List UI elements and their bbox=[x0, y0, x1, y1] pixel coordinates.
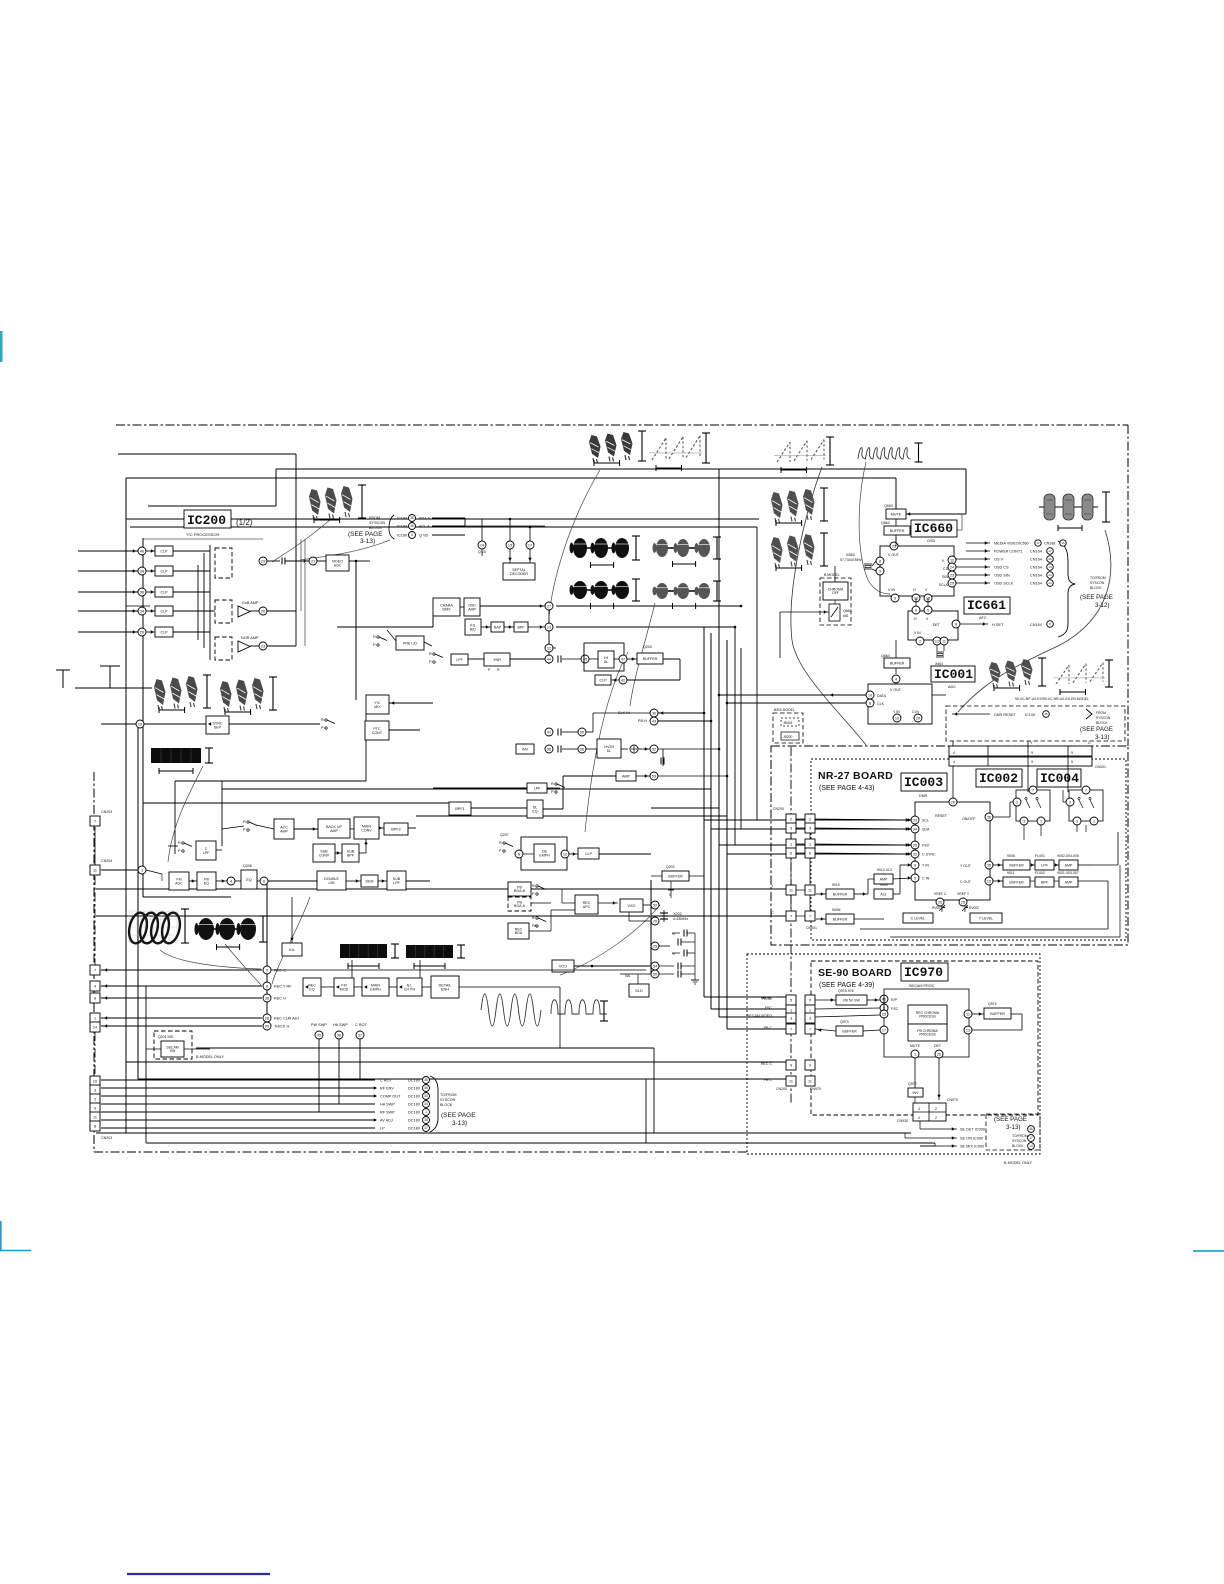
svg-text:3: 3 bbox=[94, 1089, 96, 1093]
svg-text:10: 10 bbox=[868, 693, 872, 697]
svg-text:2: 2 bbox=[1069, 800, 1071, 804]
svg-text:CN164: CN164 bbox=[1030, 566, 1042, 570]
svg-text:BUFFER: BUFFER bbox=[990, 1012, 1005, 1016]
svg-text:AGC: AGC bbox=[334, 563, 342, 567]
svg-text:BGA: BGA bbox=[515, 931, 523, 935]
svg-text:SYSCON: SYSCON bbox=[369, 521, 385, 525]
svg-text:C.SYNC: C.SYNC bbox=[922, 853, 936, 857]
svg-text:38: 38 bbox=[140, 569, 144, 573]
svg-text:DC180: DC180 bbox=[408, 1111, 420, 1115]
svg-text:26: 26 bbox=[938, 900, 942, 904]
svg-text:42: 42 bbox=[621, 678, 625, 682]
svg-text:4: 4 bbox=[918, 1107, 920, 1111]
svg-text:CN164: CN164 bbox=[1030, 574, 1042, 578]
svg-text:9011: 9011 bbox=[1007, 871, 1015, 875]
svg-text:3-13): 3-13) bbox=[1095, 734, 1109, 741]
svg-text:CN200: CN200 bbox=[776, 1087, 787, 1091]
svg-text:TO/FROM: TO/FROM bbox=[440, 1093, 457, 1097]
svg-text:2: 2 bbox=[935, 1107, 937, 1111]
svg-text:BLOCK: BLOCK bbox=[1012, 1144, 1024, 1148]
svg-text:SEP: SEP bbox=[214, 725, 222, 729]
svg-text:4: 4 bbox=[953, 760, 955, 764]
svg-text:EQ: EQ bbox=[532, 809, 537, 813]
svg-text:14: 14 bbox=[1029, 1144, 1033, 1148]
svg-text:PB C: PB C bbox=[764, 1078, 773, 1082]
svg-text:Q660-: Q660- bbox=[843, 609, 852, 613]
svg-text:11: 11 bbox=[950, 558, 954, 562]
svg-text:AMP: AMP bbox=[280, 829, 288, 833]
svg-text:23: 23 bbox=[913, 818, 917, 822]
svg-text:23: 23 bbox=[261, 644, 265, 648]
svg-text:MOD: MOD bbox=[340, 987, 349, 991]
svg-text:SCL: SCL bbox=[922, 819, 929, 823]
svg-text:7: 7 bbox=[1085, 788, 1087, 792]
svg-text:Q VD: Q VD bbox=[478, 550, 487, 554]
svg-text:1: 1 bbox=[809, 843, 811, 847]
svg-text:44: 44 bbox=[547, 657, 551, 661]
svg-text:46: 46 bbox=[583, 657, 587, 661]
svg-text:X661: X661 bbox=[935, 662, 943, 666]
svg-text:3: 3 bbox=[809, 827, 811, 831]
svg-text:8: 8 bbox=[266, 984, 268, 988]
svg-text:RF ENV: RF ENV bbox=[380, 1087, 394, 1091]
svg-text:15: 15 bbox=[1061, 541, 1065, 545]
svg-text:11: 11 bbox=[789, 1080, 793, 1084]
svg-text:B MODEL: B MODEL bbox=[824, 573, 840, 577]
svg-text:9001-003-007: 9001-003-007 bbox=[1057, 871, 1079, 875]
svg-text:IC661: IC661 bbox=[967, 598, 1006, 613]
svg-text:TO/FROM: TO/FROM bbox=[1012, 1134, 1028, 1138]
svg-text:APC: APC bbox=[583, 905, 591, 909]
svg-text:7: 7 bbox=[790, 915, 792, 919]
svg-text:MEDIA VIDEO: MEDIA VIDEO bbox=[994, 542, 1019, 546]
svg-text:Y OUT: Y OUT bbox=[960, 864, 972, 868]
svg-text:4: 4 bbox=[953, 751, 955, 755]
svg-text:1: 1 bbox=[790, 843, 792, 847]
svg-text:DC180: DC180 bbox=[408, 1079, 420, 1083]
svg-text:PROCESS: PROCESS bbox=[919, 1015, 936, 1019]
svg-text:R: R bbox=[373, 635, 376, 639]
svg-text:AV ADJ: AV ADJ bbox=[380, 1119, 393, 1123]
svg-text:V IN: V IN bbox=[888, 588, 895, 592]
svg-text:7: 7 bbox=[809, 1028, 811, 1032]
svg-text:7: 7 bbox=[1032, 788, 1034, 792]
svg-text:RF SWP: RF SWP bbox=[380, 1111, 395, 1115]
svg-text:900N: 900N bbox=[832, 908, 841, 912]
svg-text:BUFFER: BUFFER bbox=[890, 529, 905, 533]
svg-text:1: 1 bbox=[914, 1052, 916, 1056]
svg-text:Q972: Q972 bbox=[908, 1082, 917, 1086]
svg-text:NA: NA bbox=[625, 974, 631, 978]
svg-text:V OUT: V OUT bbox=[890, 688, 902, 692]
svg-text:17: 17 bbox=[528, 543, 532, 547]
svg-text:45: 45 bbox=[1044, 712, 1048, 716]
svg-text:DMX: DMX bbox=[443, 607, 452, 611]
svg-text:CLP: CLP bbox=[600, 678, 608, 682]
svg-text:33: 33 bbox=[424, 1094, 428, 1098]
svg-text:LP: LP bbox=[380, 1127, 385, 1131]
svg-text:CLP: CLP bbox=[161, 609, 169, 613]
svg-text:IC180: IC180 bbox=[397, 517, 407, 521]
svg-text:AMP: AMP bbox=[622, 774, 630, 778]
svg-text:CONV: CONV bbox=[319, 853, 330, 857]
svg-text:HA SWP: HA SWP bbox=[333, 1023, 348, 1027]
svg-text:3: 3 bbox=[1023, 819, 1025, 823]
svg-text:11: 11 bbox=[966, 1012, 970, 1016]
svg-text:OSD SCLK: OSD SCLK bbox=[994, 582, 1014, 586]
svg-text:CLP: CLP bbox=[161, 549, 169, 553]
svg-text:IC001: IC001 bbox=[934, 667, 973, 682]
svg-text:Q203: Q203 bbox=[643, 645, 652, 649]
svg-text:Y IN: Y IN bbox=[893, 710, 900, 714]
svg-text:BPF: BPF bbox=[347, 853, 355, 857]
svg-text:R: R bbox=[499, 841, 502, 845]
svg-text:SLD: SLD bbox=[635, 989, 643, 993]
svg-text:13: 13 bbox=[966, 1028, 970, 1032]
svg-text:34: 34 bbox=[913, 827, 917, 831]
svg-text:FSC: FSC bbox=[891, 1007, 899, 1011]
svg-text:REC C: REC C bbox=[274, 969, 286, 973]
svg-text:38: 38 bbox=[410, 524, 414, 528]
svg-text:HA SWP: HA SWP bbox=[380, 1103, 395, 1107]
svg-text:17: 17 bbox=[1029, 1136, 1033, 1140]
svg-text:3-13): 3-13) bbox=[1006, 1124, 1020, 1131]
svg-text:3: 3 bbox=[790, 827, 792, 831]
svg-text:38: 38 bbox=[410, 516, 414, 520]
svg-text:Q202: Q202 bbox=[666, 865, 675, 869]
svg-text:32: 32 bbox=[913, 852, 917, 856]
svg-text:H DET: H DET bbox=[992, 623, 1004, 627]
svg-text:CN001: CN001 bbox=[1095, 765, 1106, 769]
svg-text:Q973: Q973 bbox=[840, 1020, 849, 1024]
svg-text:AMP: AMP bbox=[880, 877, 888, 881]
svg-text:BPF2: BPF2 bbox=[391, 827, 401, 831]
svg-text:R: R bbox=[551, 782, 554, 786]
svg-text:JB424: JB424 bbox=[783, 721, 793, 725]
svg-text:BUFFER: BUFFER bbox=[842, 1029, 857, 1033]
svg-text:29: 29 bbox=[913, 843, 917, 847]
svg-text:B/BS MODEL: B/BS MODEL bbox=[774, 708, 795, 712]
svg-text:SDA A: SDA A bbox=[419, 517, 430, 521]
svg-text:CN930: CN930 bbox=[897, 1119, 908, 1123]
svg-text:INV: INV bbox=[522, 747, 529, 751]
svg-text:11: 11 bbox=[808, 1080, 812, 1084]
svg-text:POWER CONT1: POWER CONT1 bbox=[994, 550, 1022, 554]
svg-text:40: 40 bbox=[140, 549, 144, 553]
svg-text:EQ: EQ bbox=[309, 987, 314, 991]
svg-text:CN164: CN164 bbox=[1030, 582, 1042, 586]
svg-text:4: 4 bbox=[230, 879, 232, 883]
svg-text:20: 20 bbox=[916, 716, 920, 720]
svg-text:Y LEVEL: Y LEVEL bbox=[979, 916, 994, 920]
svg-text:2: 2 bbox=[809, 818, 811, 822]
svg-text:CLP: CLP bbox=[161, 590, 169, 594]
svg-text:11: 11 bbox=[942, 639, 946, 643]
svg-text:25: 25 bbox=[961, 900, 965, 904]
svg-text:BLOCK: BLOCK bbox=[369, 526, 382, 530]
svg-text:DC180: DC180 bbox=[408, 1095, 420, 1099]
svg-text:Q664: Q664 bbox=[881, 654, 890, 658]
svg-text:NOR AMP: NOR AMP bbox=[241, 636, 259, 640]
svg-text:29: 29 bbox=[261, 559, 265, 563]
svg-text:54: 54 bbox=[653, 964, 657, 968]
svg-text:C: C bbox=[1088, 741, 1091, 745]
svg-text:BUFFER: BUFFER bbox=[890, 661, 905, 665]
svg-text:CN168: CN168 bbox=[1044, 542, 1055, 546]
svg-text:BGA-B: BGA-B bbox=[514, 889, 526, 893]
svg-text:9: 9 bbox=[1031, 760, 1033, 764]
svg-text:CN970: CN970 bbox=[947, 1098, 958, 1102]
svg-text:NR-27 BOARD: NR-27 BOARD bbox=[818, 770, 893, 782]
svg-text:DC180: DC180 bbox=[408, 1087, 420, 1091]
svg-text:Q VD: Q VD bbox=[419, 534, 429, 538]
svg-text:25: 25 bbox=[653, 944, 657, 948]
svg-text:23: 23 bbox=[950, 573, 954, 577]
svg-text:ON/OFF: ON/OFF bbox=[962, 817, 976, 821]
svg-text:4: 4 bbox=[895, 677, 897, 681]
svg-text:2: 2 bbox=[935, 1116, 937, 1120]
svg-text:FROM: FROM bbox=[369, 516, 380, 520]
svg-text:R: R bbox=[532, 884, 535, 888]
svg-text:11: 11 bbox=[808, 889, 812, 893]
svg-text:2: 2 bbox=[790, 818, 792, 822]
svg-text:9: 9 bbox=[1031, 751, 1033, 755]
svg-text:TO/FROM: TO/FROM bbox=[1090, 576, 1106, 580]
svg-text:BUFFER: BUFFER bbox=[833, 892, 848, 896]
svg-text:VXO: VXO bbox=[627, 904, 635, 908]
svg-text:11: 11 bbox=[93, 869, 97, 873]
svg-text:30: 30 bbox=[652, 711, 656, 715]
svg-text:COMP OUT: COMP OUT bbox=[380, 1095, 401, 1099]
svg-text:DC180: DC180 bbox=[408, 1103, 420, 1107]
svg-text:BUFFER: BUFFER bbox=[1009, 863, 1024, 867]
svg-text:C OUT: C OUT bbox=[960, 880, 972, 884]
svg-text:2: 2 bbox=[919, 639, 921, 643]
svg-text:R: R bbox=[178, 841, 181, 845]
svg-text:SYSCON: SYSCON bbox=[1012, 1139, 1027, 1143]
svg-text:CN204: CN204 bbox=[101, 859, 112, 863]
svg-text:25: 25 bbox=[892, 544, 896, 548]
svg-text:IC002: IC002 bbox=[979, 771, 1018, 786]
svg-text:PW SWP: PW SWP bbox=[311, 1023, 327, 1027]
svg-text:6: 6 bbox=[809, 852, 811, 856]
svg-text:(SEE PAGE: (SEE PAGE bbox=[348, 531, 383, 538]
svg-text:LIM: LIM bbox=[329, 881, 335, 885]
svg-text:R: R bbox=[321, 718, 324, 722]
svg-text:24: 24 bbox=[950, 565, 954, 569]
svg-text:26: 26 bbox=[1048, 557, 1052, 561]
svg-text:DL: DL bbox=[607, 749, 612, 753]
svg-text:CN203: CN203 bbox=[101, 810, 112, 814]
svg-text:(SEE PAGE: (SEE PAGE bbox=[1080, 594, 1113, 601]
svg-text:AMP: AMP bbox=[330, 829, 338, 833]
svg-text:38: 38 bbox=[265, 996, 269, 1000]
svg-text:IC970: IC970 bbox=[904, 965, 943, 980]
svg-text:26: 26 bbox=[261, 609, 265, 613]
svg-text:4.43MHz: 4.43MHz bbox=[673, 917, 688, 921]
svg-text:7: 7 bbox=[809, 915, 811, 919]
svg-text:IC003: IC003 bbox=[904, 775, 943, 790]
svg-text:FROM: FROM bbox=[1096, 711, 1106, 715]
svg-text:9: 9 bbox=[879, 569, 881, 573]
svg-text:EMPH: EMPH bbox=[370, 987, 381, 991]
svg-text:MUTE: MUTE bbox=[891, 512, 902, 516]
svg-text:DC180: DC180 bbox=[408, 1127, 420, 1131]
svg-text:35: 35 bbox=[424, 1078, 428, 1082]
svg-text:CN164: CN164 bbox=[1030, 623, 1042, 627]
svg-text:Y/C PROCESSOR: Y/C PROCESSOR bbox=[186, 532, 219, 537]
svg-text:SE-90 BOARD: SE-90 BOARD bbox=[818, 967, 892, 979]
svg-text:12: 12 bbox=[547, 646, 551, 650]
svg-text:Q207: Q207 bbox=[500, 833, 509, 837]
svg-text:3: 3 bbox=[914, 863, 916, 867]
svg-text:53: 53 bbox=[652, 774, 656, 778]
svg-text:X660: X660 bbox=[846, 553, 855, 557]
svg-text:BLOCK: BLOCK bbox=[1096, 721, 1108, 725]
svg-text:DECODER: DECODER bbox=[510, 572, 528, 576]
svg-text:14: 14 bbox=[1048, 565, 1052, 569]
svg-text:CN970: CN970 bbox=[810, 1087, 821, 1091]
svg-text:BUFFER: BUFFER bbox=[833, 917, 848, 921]
svg-text:X202: X202 bbox=[673, 912, 682, 916]
svg-text:9010: 9010 bbox=[832, 883, 840, 887]
svg-text:LPF: LPF bbox=[203, 851, 210, 855]
svg-text:IC200: IC200 bbox=[187, 513, 226, 528]
svg-text:2: 2 bbox=[1016, 800, 1018, 804]
svg-text:3: 3 bbox=[1076, 819, 1078, 823]
svg-text:MUTE: MUTE bbox=[910, 1044, 921, 1048]
svg-text:1: 1 bbox=[141, 868, 143, 872]
svg-text:(1/2): (1/2) bbox=[236, 518, 253, 527]
svg-text:CONT: CONT bbox=[372, 731, 383, 735]
svg-text:10: 10 bbox=[93, 1080, 97, 1084]
svg-text:CN203: CN203 bbox=[101, 1136, 112, 1140]
svg-text:C ROT: C ROT bbox=[380, 1079, 392, 1083]
svg-text:JB200: JB200 bbox=[783, 735, 793, 739]
svg-text:7: 7 bbox=[790, 1028, 792, 1032]
svg-text:IC660: IC660 bbox=[914, 521, 953, 536]
svg-text:C IN: C IN bbox=[912, 710, 919, 714]
svg-text:Q204 205: Q204 205 bbox=[158, 1035, 173, 1039]
svg-text:MIX: MIX bbox=[374, 705, 381, 709]
svg-text:2: 2 bbox=[94, 1098, 96, 1102]
svg-text:DNR RESET: DNR RESET bbox=[994, 713, 1017, 717]
svg-text:6: 6 bbox=[263, 879, 265, 883]
svg-text:PB-H: PB-H bbox=[638, 719, 647, 723]
svg-text:27: 27 bbox=[547, 604, 551, 608]
svg-text:N: N bbox=[518, 852, 521, 856]
svg-text:(SEE PAGE 4-43): (SEE PAGE 4-43) bbox=[819, 785, 875, 792]
svg-text:AMP: AMP bbox=[1065, 863, 1073, 867]
svg-text:LPF: LPF bbox=[393, 881, 400, 885]
svg-text:17: 17 bbox=[1036, 541, 1040, 545]
svg-text:47: 47 bbox=[621, 657, 625, 661]
svg-text:Q663: Q663 bbox=[884, 504, 893, 508]
svg-text:(SEE PAGE: (SEE PAGE bbox=[994, 1116, 1027, 1123]
svg-text:18: 18 bbox=[138, 722, 142, 726]
svg-text:5: 5 bbox=[809, 999, 811, 1003]
svg-text:57.73447MHz: 57.73447MHz bbox=[840, 558, 862, 562]
svg-text:5: 5 bbox=[1071, 751, 1073, 755]
svg-text:1: 1 bbox=[425, 1110, 427, 1114]
svg-text:DEM: DEM bbox=[366, 879, 374, 883]
svg-text:5: 5 bbox=[1071, 760, 1073, 764]
svg-text:3-13): 3-13) bbox=[360, 538, 375, 545]
svg-text:8: 8 bbox=[94, 1125, 96, 1129]
svg-text:56: 56 bbox=[580, 747, 584, 751]
svg-text:A11: A11 bbox=[880, 892, 886, 896]
svg-text:FL002: FL002 bbox=[1035, 871, 1045, 875]
svg-text:Q975-976: Q975-976 bbox=[838, 989, 854, 993]
svg-text:7: 7 bbox=[94, 969, 96, 973]
svg-text:6: 6 bbox=[790, 852, 792, 856]
svg-text:BPF: BPF bbox=[1041, 880, 1049, 884]
svg-text:AGC: AGC bbox=[175, 881, 183, 885]
svg-text:(SEE PAGE 4-39): (SEE PAGE 4-39) bbox=[819, 982, 875, 989]
svg-text:BGA-A: BGA-A bbox=[514, 904, 526, 908]
svg-text:REC C: REC C bbox=[761, 1062, 773, 1066]
svg-text:OS V: OS V bbox=[994, 558, 1004, 562]
svg-text:9: 9 bbox=[915, 608, 917, 612]
svg-text:REC H: REC H bbox=[274, 997, 286, 1001]
svg-text:RV002: RV002 bbox=[969, 906, 979, 910]
svg-text:11: 11 bbox=[789, 889, 793, 893]
svg-text:REC CUR ADJ: REC CUR ADJ bbox=[274, 1017, 299, 1021]
svg-text:PB 5V SW: PB 5V SW bbox=[843, 998, 860, 1002]
svg-text:(SEE PAGE: (SEE PAGE bbox=[1080, 726, 1113, 733]
svg-text:PROCESS: PROCESS bbox=[919, 1033, 936, 1037]
svg-text:15: 15 bbox=[508, 543, 512, 547]
svg-text:INV: INV bbox=[913, 1091, 920, 1095]
svg-text:11: 11 bbox=[93, 1116, 97, 1120]
svg-text:52: 52 bbox=[652, 747, 656, 751]
svg-text:YNR: YNR bbox=[493, 658, 501, 662]
svg-text:46: 46 bbox=[1029, 1127, 1033, 1131]
svg-text:Q206: Q206 bbox=[243, 864, 252, 868]
svg-text:00: 00 bbox=[265, 1024, 269, 1028]
svg-text:8: 8 bbox=[869, 701, 871, 705]
svg-text:21: 21 bbox=[311, 559, 315, 563]
svg-text:FSO: FSO bbox=[922, 844, 930, 848]
svg-text:SYSCON: SYSCON bbox=[1090, 581, 1105, 585]
svg-text:9: 9 bbox=[790, 1064, 792, 1068]
svg-text:14: 14 bbox=[480, 543, 484, 547]
svg-text:23: 23 bbox=[1048, 581, 1052, 585]
svg-text:AMP: AMP bbox=[1065, 880, 1073, 884]
svg-text:4: 4 bbox=[411, 533, 413, 537]
svg-text:CLP: CLP bbox=[161, 630, 169, 634]
svg-text:3-13): 3-13) bbox=[452, 1120, 467, 1127]
svg-text:AMP: AMP bbox=[468, 607, 476, 611]
svg-text:3: 3 bbox=[894, 596, 896, 600]
svg-text:DC180: DC180 bbox=[408, 1119, 420, 1123]
svg-text:26: 26 bbox=[140, 630, 144, 634]
svg-text:14: 14 bbox=[93, 1026, 97, 1030]
svg-text:EQ: EQ bbox=[246, 878, 252, 882]
svg-text:(SEE PAGE: (SEE PAGE bbox=[441, 1112, 476, 1119]
svg-text:1: 1 bbox=[809, 1009, 811, 1013]
svg-text:90-VC-NP-UX-EX/99-VC-NR-UX-EX-: 90-VC-NP-UX-EX/99-VC-NR-UX-EX-EN MODEL bbox=[1015, 697, 1089, 701]
svg-text:38: 38 bbox=[424, 1118, 428, 1122]
svg-text:CLK: CLK bbox=[877, 702, 885, 706]
svg-text:EMPH: EMPH bbox=[539, 853, 550, 857]
svg-text:8: 8 bbox=[879, 559, 881, 563]
svg-text:3-12): 3-12) bbox=[1095, 602, 1109, 609]
svg-text:4: 4 bbox=[918, 1116, 920, 1120]
svg-text:CLP: CLP bbox=[585, 852, 593, 856]
svg-text:NAP: NAP bbox=[494, 625, 502, 629]
svg-text:LPF: LPF bbox=[1041, 863, 1048, 867]
